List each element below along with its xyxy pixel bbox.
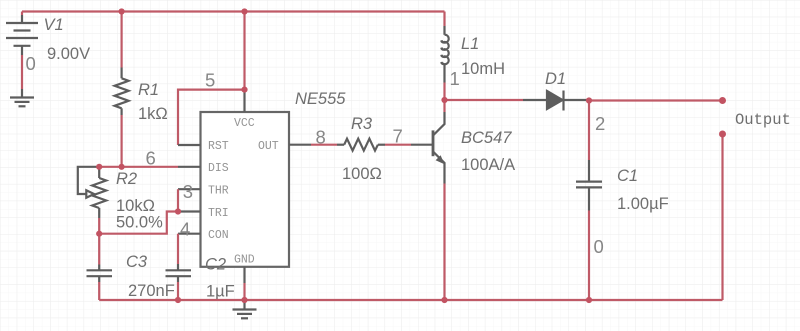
resistor R1 [115, 68, 129, 116]
svg-text:L1: L1 [461, 35, 479, 53]
svg-text:100A/A: 100A/A [461, 156, 515, 174]
inductor L1 [441, 26, 448, 83]
wire R2 bottom to C3 [98, 234, 100, 265]
junction dot TRI [175, 208, 181, 214]
pin stub GND [243, 267, 245, 283]
wire collector to node 1 [443, 100, 445, 112]
battery V1 [6, 15, 38, 55]
pin stub OUT [289, 144, 311, 146]
resistor R3 [337, 139, 385, 151]
svg-text:NE555: NE555 [295, 90, 346, 108]
IC U1 NE555 box [201, 112, 290, 267]
svg-text:C2: C2 [205, 255, 226, 273]
pin stub RST [178, 144, 201, 146]
wire C1 bottom to rail [588, 211, 590, 301]
potentiometer R2 [78, 167, 106, 218]
wire C2 bottom to rail [177, 282, 179, 300]
capacitor C2 [166, 264, 192, 282]
wire VCC riser [243, 12, 245, 90]
wire battery top stub [21, 12, 23, 16]
wire R2 bottom lead [98, 218, 100, 234]
svg-text:10kΩ: 10kΩ [116, 197, 155, 215]
pin stub THR [178, 188, 201, 190]
terminal dot output bottom [719, 131, 726, 138]
pin stub CON [178, 233, 201, 235]
wire top rail from V1 to L1 [22, 10, 445, 12]
junction dot node2 [586, 97, 592, 103]
svg-text:VCC: VCC [234, 117, 255, 130]
svg-text:4: 4 [180, 219, 190, 240]
junction dot top rail VCC [241, 8, 247, 14]
capacitor C1 [576, 160, 602, 211]
svg-text:8: 8 [316, 126, 326, 147]
wire diode to output [589, 99, 723, 101]
svg-text:1.00µF: 1.00µF [617, 195, 669, 213]
terminal dot output top [719, 97, 726, 104]
svg-text:V1: V1 [44, 16, 64, 34]
diode D1 [523, 91, 589, 111]
wire node 3 R2 bottom to THR/TRI [99, 212, 178, 234]
svg-text:270nF: 270nF [128, 282, 175, 300]
svg-text:D1: D1 [545, 70, 566, 88]
junction dot GND rail [241, 297, 247, 303]
svg-text:3: 3 [183, 181, 193, 202]
junction dot node5 [241, 87, 247, 93]
svg-text:THR: THR [208, 185, 229, 198]
wire output return riser [721, 134, 723, 300]
svg-text:TRI: TRI [208, 207, 229, 220]
svg-text:R2: R2 [116, 170, 137, 188]
svg-text:BC547: BC547 [461, 129, 512, 147]
wire DIS net node 6 [99, 166, 178, 168]
svg-text:9.00V: 9.00V [47, 45, 90, 63]
svg-text:Output: Output [735, 111, 791, 129]
svg-text:1: 1 [450, 68, 460, 89]
svg-text:RST: RST [208, 140, 229, 153]
ground (bottom) [233, 300, 257, 318]
capacitor C3 [87, 265, 113, 283]
svg-text:R1: R1 [138, 81, 159, 99]
svg-text:1µF: 1µF [206, 283, 235, 301]
wire battery negative to ground [21, 55, 23, 89]
svg-text:CON: CON [208, 229, 229, 242]
junction dot node1 [441, 97, 447, 103]
svg-text:10mH: 10mH [461, 60, 505, 78]
svg-text:GND: GND [234, 253, 255, 266]
wire emitter to rail [443, 184, 445, 301]
wire node2 down to C1 [588, 101, 590, 161]
junction dot emitter rail [441, 297, 447, 303]
junction dot DIS R1 [119, 164, 125, 170]
wire R3 to base [385, 144, 411, 146]
wire node5 RST to VCC [178, 90, 245, 145]
wire CON to C2 [177, 234, 179, 264]
svg-text:C3: C3 [126, 253, 148, 271]
svg-text:50.0%: 50.0% [116, 214, 163, 232]
wire L1 to node 1 [443, 83, 445, 101]
ground (battery) [10, 89, 34, 106]
pin stub DIS [178, 166, 201, 168]
wire OUT to R3 [311, 144, 337, 146]
junction dot C1 rail [586, 297, 592, 303]
svg-text:6: 6 [146, 148, 156, 169]
svg-text:100Ω: 100Ω [342, 165, 382, 183]
wire top rail down to L1 [443, 12, 445, 27]
transistor Q1 BC547 [411, 112, 445, 184]
junction dot top rail R1 [119, 8, 125, 14]
svg-text:DIS: DIS [208, 162, 229, 175]
pin stub VCC [243, 90, 245, 112]
wire bottom rail [99, 299, 722, 301]
wire R1 bottom connector [120, 115, 122, 167]
svg-text:1kΩ: 1kΩ [138, 105, 168, 123]
svg-text:0: 0 [594, 236, 604, 257]
wire node1 to diode [445, 99, 524, 101]
svg-text:C1: C1 [617, 167, 638, 185]
junction dot C2 rail [175, 297, 181, 303]
junction dot R2 bottom [96, 231, 102, 237]
wire C3 bottom to rail [98, 282, 100, 300]
svg-text:2: 2 [595, 113, 605, 134]
pin stub TRI [178, 210, 201, 212]
svg-text:7: 7 [393, 125, 403, 146]
svg-text:5: 5 [205, 70, 215, 91]
wire GND pin to rail [243, 283, 245, 300]
svg-text:OUT: OUT [258, 140, 279, 153]
junction dot R2 top [96, 164, 102, 170]
svg-text:R3: R3 [351, 115, 373, 133]
wire THR branch [177, 189, 179, 211]
wire R1 top connector [120, 12, 122, 68]
svg-text:0: 0 [26, 53, 36, 74]
